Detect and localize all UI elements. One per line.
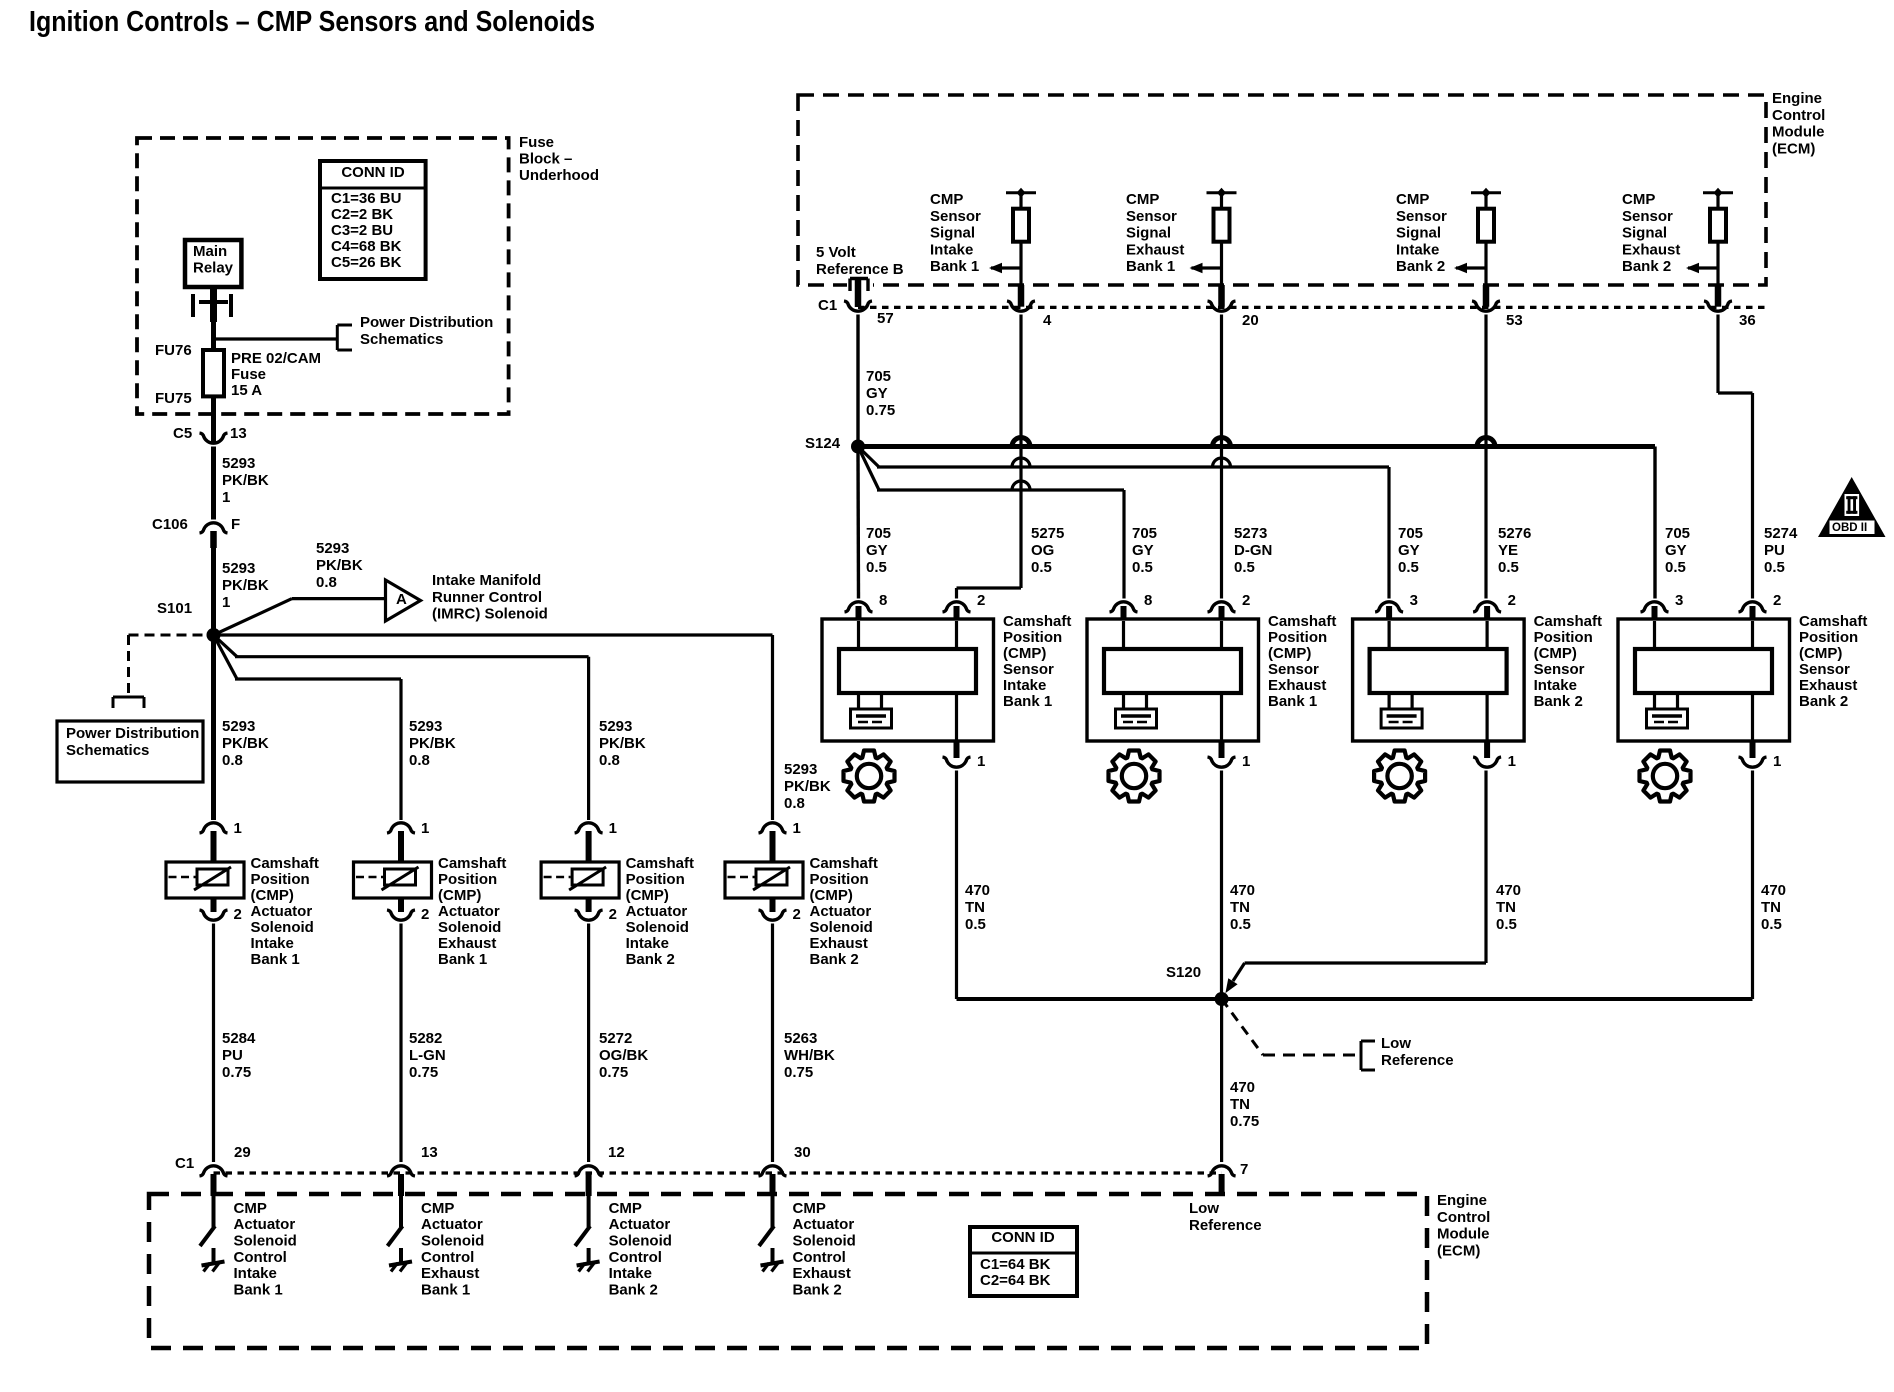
svg-text:1: 1 — [222, 489, 230, 506]
svg-text:5 Volt: 5 Volt — [816, 244, 856, 261]
svg-text:Solenoid: Solenoid — [251, 919, 314, 936]
svg-text:1: 1 — [609, 820, 617, 837]
svg-text:2: 2 — [793, 906, 801, 923]
svg-text:5293: 5293 — [222, 455, 255, 472]
svg-text:Exhaust: Exhaust — [438, 935, 496, 952]
svg-text:GY: GY — [866, 542, 888, 559]
svg-text:Camshaft: Camshaft — [251, 855, 319, 872]
svg-text:FU76: FU76 — [155, 342, 192, 359]
svg-text:470: 470 — [1761, 882, 1786, 899]
svg-text:Relay: Relay — [193, 259, 234, 276]
svg-text:TN: TN — [1230, 1096, 1250, 1113]
svg-text:GY: GY — [1665, 542, 1687, 559]
svg-text:Reference: Reference — [1189, 1217, 1262, 1234]
svg-text:Bank 2: Bank 2 — [810, 951, 859, 968]
svg-text:Bank 1: Bank 1 — [930, 258, 979, 275]
svg-text:1: 1 — [234, 820, 242, 837]
svg-text:Solenoid: Solenoid — [438, 919, 501, 936]
svg-text:Module: Module — [1437, 1226, 1490, 1243]
svg-text:20: 20 — [1242, 312, 1259, 329]
svg-text:Bank 2: Bank 2 — [1622, 258, 1671, 275]
svg-text:Intake: Intake — [1534, 677, 1577, 694]
svg-text:Block –: Block – — [519, 150, 572, 167]
svg-text:53: 53 — [1506, 312, 1523, 329]
svg-text:4: 4 — [1043, 312, 1052, 329]
svg-text:0.5: 0.5 — [1498, 559, 1519, 576]
svg-text:Position: Position — [1534, 629, 1593, 646]
svg-text:Engine: Engine — [1772, 90, 1822, 107]
svg-text:Camshaft: Camshaft — [438, 855, 506, 872]
svg-text:470: 470 — [1230, 882, 1255, 899]
svg-text:Bank 1: Bank 1 — [251, 951, 300, 968]
svg-text:Intake Manifold: Intake Manifold — [432, 572, 541, 589]
svg-text:A: A — [396, 591, 407, 608]
svg-text:7: 7 — [1240, 1161, 1248, 1178]
svg-text:Schematics: Schematics — [66, 742, 149, 759]
svg-text:36: 36 — [1739, 312, 1756, 329]
svg-text:0.75: 0.75 — [409, 1064, 438, 1081]
svg-text:0.5: 0.5 — [1761, 916, 1782, 933]
svg-text:Exhaust: Exhaust — [793, 1265, 851, 1282]
svg-text:8: 8 — [1144, 592, 1152, 609]
svg-text:8: 8 — [879, 592, 887, 609]
svg-text:3: 3 — [1410, 592, 1418, 609]
svg-text:Solenoid: Solenoid — [810, 919, 873, 936]
svg-text:Bank 1: Bank 1 — [1126, 258, 1175, 275]
svg-text:Schematics: Schematics — [360, 331, 443, 348]
svg-text:Intake: Intake — [930, 241, 973, 258]
svg-text:Reference B: Reference B — [816, 261, 904, 278]
svg-text:Position: Position — [1268, 629, 1327, 646]
svg-text:Sensor: Sensor — [1799, 661, 1850, 678]
svg-text:0.75: 0.75 — [784, 1064, 813, 1081]
svg-text:PU: PU — [222, 1047, 243, 1064]
svg-text:CMP: CMP — [1126, 191, 1159, 208]
svg-text:Main: Main — [193, 243, 227, 260]
svg-text:0.5: 0.5 — [1230, 916, 1251, 933]
svg-text:Actuator: Actuator — [609, 1216, 671, 1233]
svg-text:Intake: Intake — [1396, 241, 1439, 258]
svg-text:2: 2 — [977, 592, 985, 609]
svg-text:C2=64 BK: C2=64 BK — [980, 1272, 1051, 1289]
svg-text:Actuator: Actuator — [810, 903, 872, 920]
svg-text:CONN ID: CONN ID — [991, 1229, 1055, 1246]
svg-text:PK/BK: PK/BK — [316, 557, 363, 574]
svg-text:PRE 02/CAM: PRE 02/CAM — [231, 350, 321, 367]
svg-text:PU: PU — [1764, 542, 1785, 559]
svg-text:(CMP): (CMP) — [1534, 645, 1577, 662]
svg-text:0.75: 0.75 — [599, 1064, 628, 1081]
svg-text:0.5: 0.5 — [1031, 559, 1052, 576]
svg-text:GY: GY — [866, 385, 888, 402]
svg-text:FU75: FU75 — [155, 390, 192, 407]
svg-text:29: 29 — [234, 1144, 251, 1161]
svg-text:Underhood: Underhood — [519, 167, 599, 184]
svg-text:Fuse: Fuse — [231, 366, 266, 383]
svg-text:Bank 2: Bank 2 — [1534, 693, 1583, 710]
svg-text:Bank 1: Bank 1 — [1268, 693, 1317, 710]
svg-text:Control: Control — [1437, 1209, 1490, 1226]
svg-text:Control: Control — [234, 1249, 287, 1266]
svg-text:5282: 5282 — [409, 1030, 442, 1047]
svg-text:2: 2 — [421, 906, 429, 923]
svg-text:2: 2 — [1773, 592, 1781, 609]
svg-text:0.5: 0.5 — [866, 559, 887, 576]
svg-text:0.5: 0.5 — [1496, 916, 1517, 933]
svg-text:0.5: 0.5 — [1764, 559, 1785, 576]
svg-text:Control: Control — [421, 1249, 474, 1266]
svg-text:5272: 5272 — [599, 1030, 632, 1047]
svg-text:Control: Control — [793, 1249, 846, 1266]
svg-text:GY: GY — [1398, 542, 1420, 559]
svg-text:Bank 2: Bank 2 — [793, 1282, 842, 1299]
svg-text:Signal: Signal — [1396, 225, 1441, 242]
svg-text:C2=2 BK: C2=2 BK — [331, 206, 393, 223]
svg-text:OBD II: OBD II — [1832, 522, 1867, 534]
svg-text:Camshaft: Camshaft — [1268, 613, 1336, 630]
svg-text:Control: Control — [1772, 107, 1825, 124]
svg-text:0.5: 0.5 — [1398, 559, 1419, 576]
svg-text:2: 2 — [1242, 592, 1250, 609]
svg-text:PK/BK: PK/BK — [784, 778, 831, 795]
svg-text:1: 1 — [1773, 753, 1781, 770]
svg-text:(CMP): (CMP) — [1003, 645, 1046, 662]
svg-text:PK/BK: PK/BK — [222, 735, 269, 752]
svg-text:Exhaust: Exhaust — [1268, 677, 1326, 694]
svg-text:CMP: CMP — [793, 1200, 826, 1217]
svg-text:Position: Position — [438, 871, 497, 888]
svg-text:Intake: Intake — [609, 1265, 652, 1282]
svg-text:PK/BK: PK/BK — [409, 735, 456, 752]
svg-text:470: 470 — [1496, 882, 1521, 899]
svg-text:OG: OG — [1031, 542, 1054, 559]
svg-text:C1: C1 — [175, 1155, 194, 1172]
svg-text:Low: Low — [1189, 1200, 1219, 1217]
svg-text:CMP: CMP — [1622, 191, 1655, 208]
svg-text:PK/BK: PK/BK — [222, 472, 269, 489]
svg-text:Low: Low — [1381, 1035, 1411, 1052]
svg-text:Bank 1: Bank 1 — [438, 951, 487, 968]
svg-text:S124: S124 — [805, 435, 841, 452]
svg-text:705: 705 — [1398, 525, 1423, 542]
svg-text:(CMP): (CMP) — [438, 887, 481, 904]
svg-text:Position: Position — [251, 871, 310, 888]
svg-text:TN: TN — [1496, 899, 1516, 916]
svg-text:Intake: Intake — [234, 1265, 277, 1282]
svg-text:0.8: 0.8 — [599, 752, 620, 769]
svg-text:5275: 5275 — [1031, 525, 1064, 542]
svg-text:Solenoid: Solenoid — [793, 1233, 856, 1250]
svg-text:705: 705 — [1665, 525, 1690, 542]
svg-text:Sensor: Sensor — [1396, 208, 1447, 225]
svg-text:CMP: CMP — [421, 1200, 454, 1217]
svg-text:Actuator: Actuator — [438, 903, 500, 920]
svg-text:Sensor: Sensor — [1268, 661, 1319, 678]
svg-text:(CMP): (CMP) — [1799, 645, 1842, 662]
svg-text:CMP: CMP — [609, 1200, 642, 1217]
svg-text:0.75: 0.75 — [1230, 1113, 1259, 1130]
svg-text:WH/BK: WH/BK — [784, 1047, 835, 1064]
svg-text:470: 470 — [1230, 1079, 1255, 1096]
svg-text:(ECM): (ECM) — [1772, 140, 1815, 157]
svg-text:(IMRC) Solenoid: (IMRC) Solenoid — [432, 606, 548, 623]
svg-text:Power Distribution: Power Distribution — [360, 314, 493, 331]
svg-text:Position: Position — [810, 871, 869, 888]
svg-text:Bank 2: Bank 2 — [1799, 693, 1848, 710]
svg-text:C4=68 BK: C4=68 BK — [331, 238, 402, 255]
svg-text:Signal: Signal — [1622, 225, 1667, 242]
svg-text:(CMP): (CMP) — [1268, 645, 1311, 662]
svg-text:S101: S101 — [157, 600, 192, 617]
svg-text:C106: C106 — [152, 516, 188, 533]
svg-text:Position: Position — [626, 871, 685, 888]
svg-text:(ECM): (ECM) — [1437, 1242, 1480, 1259]
svg-text:1: 1 — [1242, 753, 1250, 770]
svg-text:(CMP): (CMP) — [810, 887, 853, 904]
svg-text:S120: S120 — [1166, 964, 1201, 981]
svg-text:Exhaust: Exhaust — [1126, 241, 1184, 258]
svg-text:13: 13 — [230, 425, 247, 442]
svg-text:57: 57 — [877, 310, 894, 327]
svg-text:Actuator: Actuator — [793, 1216, 855, 1233]
svg-text:L-GN: L-GN — [409, 1047, 446, 1064]
svg-text:D-GN: D-GN — [1234, 542, 1272, 559]
svg-text:2: 2 — [609, 906, 617, 923]
svg-text:Power Distribution: Power Distribution — [66, 725, 199, 742]
svg-text:Bank 2: Bank 2 — [1396, 258, 1445, 275]
svg-text:1: 1 — [977, 753, 985, 770]
svg-text:5276: 5276 — [1498, 525, 1531, 542]
svg-text:PK/BK: PK/BK — [599, 735, 646, 752]
svg-text:Solenoid: Solenoid — [626, 919, 689, 936]
svg-text:F: F — [231, 516, 240, 533]
svg-text:0.5: 0.5 — [1234, 559, 1255, 576]
svg-text:Actuator: Actuator — [421, 1216, 483, 1233]
svg-text:Camshaft: Camshaft — [1534, 613, 1602, 630]
svg-text:Solenoid: Solenoid — [421, 1233, 484, 1250]
svg-text:0.5: 0.5 — [965, 916, 986, 933]
svg-text:2: 2 — [234, 906, 242, 923]
svg-text:1: 1 — [421, 820, 429, 837]
svg-text:5293: 5293 — [599, 718, 632, 735]
svg-text:Intake: Intake — [626, 935, 669, 952]
svg-text:Solenoid: Solenoid — [609, 1233, 672, 1250]
svg-text:0.8: 0.8 — [316, 574, 337, 591]
svg-text:Control: Control — [609, 1249, 662, 1266]
svg-text:30: 30 — [794, 1144, 811, 1161]
svg-text:C3=2 BU: C3=2 BU — [331, 222, 393, 239]
svg-text:Engine: Engine — [1437, 1192, 1487, 1209]
svg-text:Actuator: Actuator — [234, 1216, 296, 1233]
svg-text:Bank 1: Bank 1 — [1003, 693, 1052, 710]
svg-text:Camshaft: Camshaft — [1799, 613, 1867, 630]
svg-text:OG/BK: OG/BK — [599, 1047, 648, 1064]
svg-text:0.75: 0.75 — [866, 402, 895, 419]
svg-text:705: 705 — [1132, 525, 1157, 542]
svg-text:5293: 5293 — [222, 560, 255, 577]
svg-text:Sensor: Sensor — [1126, 208, 1177, 225]
svg-text:Position: Position — [1003, 629, 1062, 646]
svg-text:Camshaft: Camshaft — [626, 855, 694, 872]
svg-text:Exhaust: Exhaust — [1622, 241, 1680, 258]
svg-text:C1: C1 — [818, 297, 837, 314]
svg-text:0.5: 0.5 — [1665, 559, 1686, 576]
svg-text:Sensor: Sensor — [1534, 661, 1585, 678]
svg-text:(CMP): (CMP) — [626, 887, 669, 904]
svg-text:15 A: 15 A — [231, 382, 262, 399]
svg-text:Camshaft: Camshaft — [1003, 613, 1071, 630]
svg-text:CMP: CMP — [930, 191, 963, 208]
svg-text:Reference: Reference — [1381, 1052, 1454, 1069]
svg-text:0.8: 0.8 — [784, 795, 805, 812]
svg-text:C5=26 BK: C5=26 BK — [331, 254, 402, 271]
svg-text:CONN ID: CONN ID — [341, 164, 405, 181]
svg-text:C1=64 BK: C1=64 BK — [980, 1256, 1051, 1273]
svg-text:5293: 5293 — [316, 540, 349, 557]
svg-text:5263: 5263 — [784, 1030, 817, 1047]
svg-text:Actuator: Actuator — [251, 903, 313, 920]
svg-text:5293: 5293 — [409, 718, 442, 735]
svg-text:0.75: 0.75 — [222, 1064, 251, 1081]
svg-text:Signal: Signal — [1126, 225, 1171, 242]
svg-text:TN: TN — [1230, 899, 1250, 916]
svg-text:TN: TN — [965, 899, 985, 916]
svg-text:Solenoid: Solenoid — [234, 1233, 297, 1250]
svg-text:470: 470 — [965, 882, 990, 899]
svg-text:Sensor: Sensor — [930, 208, 981, 225]
svg-text:Camshaft: Camshaft — [810, 855, 878, 872]
svg-text:Intake: Intake — [251, 935, 294, 952]
svg-text:Module: Module — [1772, 124, 1825, 141]
svg-text:12: 12 — [608, 1144, 625, 1161]
svg-text:705: 705 — [866, 525, 891, 542]
svg-text:Exhaust: Exhaust — [810, 935, 868, 952]
svg-text:5274: 5274 — [1764, 525, 1798, 542]
svg-text:C5: C5 — [173, 425, 192, 442]
svg-text:3: 3 — [1675, 592, 1683, 609]
svg-text:1: 1 — [793, 820, 801, 837]
svg-text:Exhaust: Exhaust — [1799, 677, 1857, 694]
svg-text:Bank 2: Bank 2 — [609, 1282, 658, 1299]
svg-text:1: 1 — [222, 594, 230, 611]
svg-text:YE: YE — [1498, 542, 1518, 559]
svg-text:TN: TN — [1761, 899, 1781, 916]
svg-text:5293: 5293 — [784, 761, 817, 778]
svg-text:5273: 5273 — [1234, 525, 1267, 542]
svg-text:13: 13 — [421, 1144, 438, 1161]
svg-text:2: 2 — [1508, 592, 1516, 609]
svg-text:GY: GY — [1132, 542, 1154, 559]
svg-text:CMP: CMP — [1396, 191, 1429, 208]
svg-text:Sensor: Sensor — [1003, 661, 1054, 678]
svg-text:Runner Control: Runner Control — [432, 589, 542, 606]
svg-text:Sensor: Sensor — [1622, 208, 1673, 225]
svg-text:PK/BK: PK/BK — [222, 577, 269, 594]
svg-text:Intake: Intake — [1003, 677, 1046, 694]
svg-text:Bank 1: Bank 1 — [234, 1282, 283, 1299]
svg-text:Bank 1: Bank 1 — [421, 1282, 470, 1299]
svg-text:CMP: CMP — [234, 1200, 267, 1217]
svg-text:705: 705 — [866, 368, 891, 385]
svg-text:Position: Position — [1799, 629, 1858, 646]
svg-text:Ignition Controls – CMP Sensor: Ignition Controls – CMP Sensors and Sole… — [29, 6, 595, 38]
svg-text:0.8: 0.8 — [409, 752, 430, 769]
svg-text:C1=36 BU: C1=36 BU — [331, 190, 401, 207]
svg-text:Exhaust: Exhaust — [421, 1265, 479, 1282]
svg-text:Bank 2: Bank 2 — [626, 951, 675, 968]
svg-text:(CMP): (CMP) — [251, 887, 294, 904]
svg-text:0.5: 0.5 — [1132, 559, 1153, 576]
svg-text:1: 1 — [1508, 753, 1516, 770]
svg-text:Actuator: Actuator — [626, 903, 688, 920]
svg-text:Fuse: Fuse — [519, 134, 554, 151]
svg-text:5284: 5284 — [222, 1030, 256, 1047]
svg-text:0.8: 0.8 — [222, 752, 243, 769]
svg-text:5293: 5293 — [222, 718, 255, 735]
svg-text:Signal: Signal — [930, 225, 975, 242]
